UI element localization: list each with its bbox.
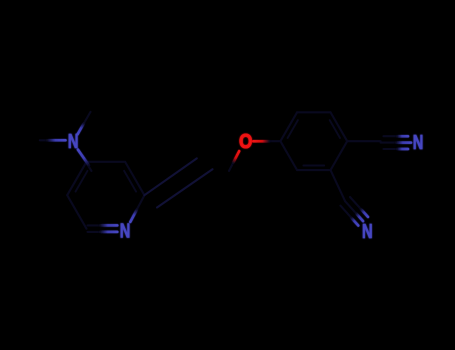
bond O-ring (dark underlay): [253, 140, 280, 142]
triple C#N1 upper bright: [397, 135, 408, 138]
bond N-CH3 upper (dark underlay): [78, 112, 91, 134]
svg-text:N: N: [362, 221, 373, 243]
ring edge Vsw-Vse: [297, 169, 330, 171]
triple C#N2 lower (dark underlay): [340, 206, 358, 226]
ring bond N1-C6 bright part: [130, 209, 137, 222]
bond ring-Csp2: [331, 170, 346, 201]
triple C#N1 upper (dark underlay): [384, 135, 409, 137]
ring edge Vse-Ve: [331, 141, 348, 170]
double C2=N1 lower (dark underlay): [88, 231, 118, 233]
inner double line Vnw=Vw: [288, 120, 298, 138]
svg-text:N: N: [120, 220, 131, 242]
bond N-CH3 upper bright part: [78, 123, 84, 134]
triple C#N2 lower bright: [351, 218, 358, 226]
double C2=N1 upper bright: [100, 224, 117, 227]
ring edge C3-C4: [67, 162, 86, 195]
svg-text:N: N: [413, 132, 424, 154]
triple C#N2 center (dark underlay): [345, 201, 363, 221]
ring edge C2-C3: [67, 195, 86, 229]
bond ring-Csp1: [347, 140, 380, 142]
ring edge Ve-Vne: [331, 112, 348, 141]
triple C#N1 lower bright: [397, 148, 408, 151]
triple C#N2 upper (dark underlay): [350, 197, 368, 217]
triple C#N1 lower (dark underlay): [384, 148, 409, 150]
bond O-CH2 (dark underlay): [229, 151, 239, 171]
svg-text:N: N: [68, 131, 79, 153]
bond N-CH3 west (dark underlay): [40, 139, 66, 141]
bond O-CH2 bright part: [233, 151, 239, 163]
triple C#N1 center bright: [396, 141, 411, 144]
ring edge C4-C5: [87, 161, 126, 163]
chain line L2: [157, 169, 213, 207]
double C2=N1 lower bright: [100, 231, 117, 234]
ring edge Vne-Vnw: [297, 111, 330, 113]
inner double line C5=C6: [124, 171, 136, 192]
ring edge Vnw-Vw: [280, 112, 297, 141]
triple C#N1 center (dark underlay): [381, 142, 411, 144]
triple C#N2 center bright: [356, 213, 363, 221]
inner double line C3=C4: [76, 171, 88, 192]
svg-text:O: O: [239, 131, 252, 153]
double C2=N1 upper (dark underlay): [88, 224, 118, 226]
ring edge Vw-Vsw: [280, 141, 297, 170]
triple C#N2 upper bright: [361, 209, 368, 217]
ring edge C5-C6: [125, 162, 144, 195]
ring bond N1-C6 (dark underlay): [130, 195, 144, 222]
bond O-ring bright part: [253, 140, 269, 143]
bond N-CH3 west bright part: [47, 139, 66, 142]
inner double line Vsw=Vse: [303, 165, 324, 167]
bond N-C4 bright part: [78, 150, 89, 166]
inner double line Ve=Vne: [330, 120, 340, 138]
chain line L1: [144, 158, 196, 195]
bond N-C4 (dark underlay): [78, 150, 92, 171]
